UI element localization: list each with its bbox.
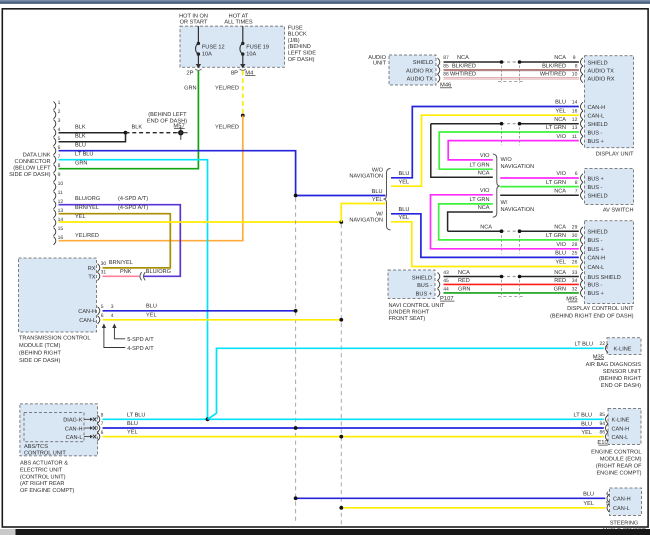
junction TCM CAN-H [294,309,298,313]
svg-text:BUS +: BUS + [416,291,432,297]
ABS/TCS control unit inner box [24,413,84,442]
svg-text:(BEHIND RIGHT: (BEHIND RIGHT [19,349,62,356]
svg-text:29: 29 [572,224,578,230]
svg-text:FUSE 19: FUSE 19 [246,45,269,51]
svg-text:9: 9 [573,55,576,61]
svg-text:TX: TX [88,275,95,281]
engine control module (ECM) box [608,409,641,445]
svg-text:VIO: VIO [556,134,566,140]
svg-text:32: 32 [572,286,578,292]
svg-text:14: 14 [572,100,578,106]
svg-text:BUS -: BUS - [588,185,603,191]
wire NCA audio SHIELD to display unit SHIELD 9 [444,61,502,63]
svg-text:CAN-L: CAN-L [66,435,83,441]
svg-text:WHT/RED: WHT/RED [540,71,566,78]
svg-text:DISPLAY UNIT: DISPLAY UNIT [596,152,634,158]
svg-text:BLU: BLU [399,207,410,213]
svg-text:8: 8 [101,413,104,419]
window title bar (top chrome strip) [0,0,650,4]
svg-text:LT GRN: LT GRN [546,180,566,186]
svg-text:BUS +: BUS + [588,291,604,297]
svg-text:BLU: BLU [399,171,410,177]
display unit box [585,56,634,148]
junction on page-split line BLU [294,194,298,198]
display control unit box [585,221,634,304]
svg-text:BLU: BLU [555,251,566,257]
svg-text:VIO: VIO [480,153,490,159]
svg-text:ALL TIMES: ALL TIMES [224,20,253,26]
svg-text:BUS -: BUS - [588,283,603,289]
svg-text:(BEHIND RIGHT END OF DASH): (BEHIND RIGHT END OF DASH) [550,312,634,319]
svg-text:GRN: GRN [458,286,470,292]
svg-text:ABS ACTUATOR &: ABS ACTUATOR & [20,461,68,467]
svg-text:AUDIO TX: AUDIO TX [407,77,434,83]
svg-text:CAN-H: CAN-H [78,309,96,315]
svg-text:BRN/YEL: BRN/YEL [109,259,133,266]
svg-text:ELECTRIC UNIT: ELECTRIC UNIT [20,467,63,473]
junction on CAN-L [339,435,343,439]
svg-text:BRN/YEL: BRN/YEL [75,204,99,211]
svg-text:OF DASH): OF DASH) [288,56,315,63]
wire GRN navi BUS+ to display control unit BUS+ 32 [444,292,579,294]
svg-text:7: 7 [575,189,578,195]
svg-text:VIO: VIO [556,171,566,177]
svg-text:NCA: NCA [478,170,490,176]
junction DLC pin7 LT BLU on DIAG-K wire [206,417,210,421]
wire VIO display unit BUS+ 11 to W/O brace [448,141,579,160]
wire LT BLU ABS DIAG-K to ECM K-LINE [103,418,604,420]
svg-text:22: 22 [600,341,606,347]
svg-text:TRANSMISSION CONTROL: TRANSMISSION CONTROL [19,336,90,342]
svg-text:8: 8 [575,180,578,186]
junction on CAN-H [294,426,298,430]
splice on BLK [124,131,128,135]
svg-text:SHIELD: SHIELD [413,60,433,66]
svg-text:9: 9 [58,172,61,178]
wire YEL TCM CAN-L to page split junction [103,319,342,321]
svg-text:86: 86 [443,72,449,78]
svg-text:CAN-H: CAN-H [588,105,606,111]
steering angle sensor box [610,488,642,516]
svg-text:STEERING: STEERING [610,521,639,527]
svg-text:87: 87 [443,55,449,61]
svg-text:10: 10 [572,72,578,78]
svg-text:NCA: NCA [478,205,490,211]
wire BRN/YEL TCM RX to DLC pin 13 [103,267,171,269]
transmission control module (TCM) box [19,258,97,332]
wire VIO W/ NAV brace to display control unit BUS+ 28 [431,195,579,249]
svg-text:VIO: VIO [480,188,490,194]
svg-text:WHT/RED: WHT/RED [450,71,476,78]
svg-text:MODULE (ECM): MODULE (ECM) [600,456,642,463]
ECM pin CAN-L 86 [606,432,609,441]
bottom chrome bar [0,529,650,535]
wire YEL ABS CAN-L to ECM CAN-L [103,436,604,438]
svg-text:6: 6 [101,313,104,319]
wire RED navi BUS- to display control unit BUS- 34 [444,283,579,285]
svg-text:NCA: NCA [554,55,566,61]
svg-text:13: 13 [572,125,578,131]
svg-text:5-SPD A/T: 5-SPD A/T [127,336,154,343]
svg-text:(BELOW LEFT: (BELOW LEFT [13,164,51,171]
svg-text:MODULE (TCM): MODULE (TCM) [19,342,60,349]
svg-text:CAN-H: CAN-H [588,256,606,262]
svg-text:BUS -: BUS - [588,238,603,244]
wire PNK TCM TX to inline connector [103,275,140,277]
svg-text:(4-SPD A/T): (4-SPD A/T) [118,204,148,211]
svg-text:LT BLU: LT BLU [575,341,593,347]
svg-text:CAN-L: CAN-L [588,114,605,120]
svg-text:YEL/RED: YEL/RED [215,124,239,131]
brace merging W/O and W/ BUS wires [493,154,500,217]
svg-text:CAN-H: CAN-H [613,497,631,503]
shield drain dashed line [498,81,523,83]
junction TCM CAN-L [339,318,343,322]
svg-text:END OF DASH): END OF DASH) [601,382,641,389]
inline connector on PNK/BLU-ORG [140,272,142,280]
svg-text:DIAG-K: DIAG-K [63,418,83,424]
svg-text:5: 5 [101,304,104,310]
wire BRN/YEL DLC pin 13 to TCM RX [59,214,171,268]
svg-text:SHIELD: SHIELD [588,230,608,236]
wire YEL W/ NAV to display control unit CAN-L 26 [391,222,579,267]
svg-text:YEL/RED: YEL/RED [75,232,99,239]
splice on YEL/RED [241,114,245,118]
svg-text:YEL: YEL [399,215,410,221]
svg-text:LT GRN: LT GRN [470,162,490,168]
svg-text:16: 16 [58,235,64,241]
svg-text:DATA LINK: DATA LINK [23,152,51,158]
svg-text:YEL: YEL [555,260,566,266]
callout arrow 4-SPD A/T [102,323,106,328]
svg-text:(BEHIND LEFT: (BEHIND LEFT [148,111,187,118]
wire LT GRN W/ NAV brace to display control unit BUS- 30 [439,204,579,240]
wire LT GRN merged to AV switch BUS- 8 [500,186,579,188]
svg-text:2: 2 [58,109,61,115]
svg-text:26: 26 [572,260,578,266]
AV switch box [585,169,634,205]
svg-text:NAVI CONTROL UNIT: NAVI CONTROL UNIT [389,303,446,309]
svg-text:BLK: BLK [132,125,143,131]
svg-text:85: 85 [600,412,606,418]
wire BLU/ORG DLC pin 12 to inline connector toward TCM TX [59,205,181,277]
wire YEL steering angle sensor CAN-L [341,507,605,509]
svg-text:FRONT SEAT): FRONT SEAT) [389,315,426,322]
svg-text:LEFT SIDE: LEFT SIDE [288,51,316,57]
svg-text:HOT AT: HOT AT [229,13,249,19]
svg-text:RED: RED [458,278,470,284]
svg-text:SHIELD: SHIELD [588,60,608,66]
wire BLK DLC pin 5 to splice [59,135,126,142]
svg-text:FUSE: FUSE [288,25,303,31]
svg-text:BLK: BLK [75,125,86,131]
svg-text:SIDE OF DASH): SIDE OF DASH) [9,171,50,178]
svg-text:8: 8 [575,63,578,69]
svg-text:(BEHIND RIGHT: (BEHIND RIGHT [599,375,642,382]
wire BLU steering angle sensor CAN-H [296,497,606,499]
svg-text:BLOCK: BLOCK [288,32,307,38]
svg-text:YEL: YEL [146,313,157,319]
svg-text:OF ENGINE COMPT): OF ENGINE COMPT) [20,487,75,494]
svg-text:YEL: YEL [75,214,86,220]
wire BLU ABS CAN-H to ECM CAN-H [103,427,604,429]
svg-text:NAVIGATION: NAVIGATION [501,207,535,213]
svg-text:BLU: BLU [583,492,594,498]
svg-text:BLU: BLU [127,421,138,427]
svg-text:25: 25 [572,251,578,257]
svg-text:(BEHIND: (BEHIND [288,43,311,50]
wire BLU DLC pin 6 to W/O-W/ split brace [59,151,386,196]
svg-text:CAN-L: CAN-L [613,506,630,512]
svg-text:SHIELD: SHIELD [588,122,608,128]
svg-text:BUS +: BUS + [588,176,604,182]
svg-text:YEL: YEL [372,197,383,203]
wire LT BLU DLC pin 7 down to ABS DIAG-K wire [59,160,208,420]
svg-text:CAN-L: CAN-L [612,435,629,441]
ABS/TCS control unit outer box [20,404,98,456]
svg-text:W/: W/ [376,210,383,217]
data link connector pins 1-16 [54,102,56,110]
svg-text:AUDIO RX: AUDIO RX [588,77,615,83]
svg-text:86: 86 [600,430,606,436]
svg-text:CAN-L: CAN-L [79,318,96,324]
svg-text:8P: 8P [231,69,238,76]
svg-text:K-LINE: K-LINE [612,418,630,424]
svg-text:11: 11 [58,190,63,196]
svg-text:BLK/RED: BLK/RED [452,62,476,69]
svg-text:AUDIO RX: AUDIO RX [406,68,433,74]
svg-text:LT GRN: LT GRN [546,125,566,131]
ECM pin K-LINE 85 [606,415,609,424]
svg-text:CAN-H: CAN-H [612,426,630,432]
svg-text:AV SWITCH: AV SWITCH [603,208,634,214]
wire WHT/RED audio TX to display unit AUDIO RX 10 [444,77,579,79]
svg-text:SHIELD: SHIELD [588,194,608,200]
svg-text:4: 4 [111,313,114,319]
svg-text:W/O: W/O [372,167,384,174]
svg-text:NCA: NCA [480,224,492,230]
svg-text:NCA: NCA [554,224,566,230]
svg-text:30: 30 [101,261,107,267]
svg-text:44: 44 [443,286,449,292]
wire BLU W/O NAV to display unit CAN-H 14 [391,107,579,178]
svg-text:(RIGHT REAR OF: (RIGHT REAR OF [596,463,642,470]
svg-text:3: 3 [111,304,114,310]
svg-text:(4-SPD A/T): (4-SPD A/T) [118,195,148,202]
svg-text:LT BLU: LT BLU [574,412,592,418]
svg-text:10A: 10A [202,51,212,57]
svg-text:NAVIGATION: NAVIGATION [349,174,383,180]
svg-text:BLK: BLK [75,134,86,140]
svg-text:YEL: YEL [583,501,594,507]
svg-text:BLU: BLU [75,143,86,149]
wire BLU TCM CAN-H to page split junction [103,310,296,312]
svg-text:ENGINE CONTROL: ENGINE CONTROL [591,449,641,455]
shield drain dashed line lower [498,296,523,298]
svg-text:4-SPD A/T: 4-SPD A/T [127,345,154,352]
svg-text:34: 34 [572,278,578,284]
svg-text:10: 10 [58,181,64,187]
wire BLK dashed splice to ground M57 [126,132,177,134]
svg-text:RX: RX [88,266,96,272]
navi control unit box [388,270,435,298]
svg-text:8: 8 [58,163,61,169]
svg-text:CONTROL UNIT: CONTROL UNIT [24,451,66,457]
svg-text:NAVIGATION: NAVIGATION [501,164,535,170]
svg-text:YEL: YEL [581,430,592,436]
svg-text:YEL: YEL [399,180,410,186]
svg-text:NCA: NCA [554,189,566,195]
fuse F19 (FUSE 19 10A) [242,26,244,43]
air bag diagnosis sensor unit box [607,338,641,355]
svg-text:85: 85 [443,63,449,69]
svg-text:LT GRN: LT GRN [470,197,490,203]
svg-text:94: 94 [600,421,606,427]
ECM pin CAN-H 94 [606,424,609,433]
svg-text:YEL: YEL [555,108,566,114]
wire NCA W/ NAV brace to display control unit SHIELD 29 [448,212,493,231]
svg-text:W/: W/ [501,199,508,206]
svg-text:30: 30 [572,233,578,239]
svg-text:LT GRN: LT GRN [546,233,566,239]
svg-text:RED: RED [554,278,566,284]
svg-text:43: 43 [443,270,449,276]
svg-text:BLU/ORG: BLU/ORG [75,195,100,202]
svg-text:W/O: W/O [501,156,513,163]
svg-text:SHIELD: SHIELD [412,276,432,282]
audio unit box [389,55,436,85]
svg-text:BLU: BLU [372,189,383,195]
svg-text:BUS +: BUS + [588,139,604,145]
svg-text:HOT IN ON: HOT IN ON [179,13,208,19]
svg-text:FUSE 12: FUSE 12 [202,45,225,51]
svg-text:BUS +: BUS + [588,247,604,253]
svg-text:DISPLAY CONTROL UNIT: DISPLAY CONTROL UNIT [567,306,634,312]
svg-text:PNK: PNK [120,269,132,275]
svg-text:28: 28 [572,242,578,248]
wire LT BLU branch to air bag diagnosis sensor K-LINE [208,348,604,419]
svg-text:BLU: BLU [581,421,592,427]
svg-text:6: 6 [101,430,104,436]
svg-text:(AT RIGHT REAR: (AT RIGHT REAR [20,480,64,487]
svg-text:BUS -: BUS - [417,283,432,289]
svg-text:NAVIGATION: NAVIGATION [349,218,383,224]
svg-text:GRN: GRN [75,161,87,167]
svg-text:16: 16 [572,108,578,114]
wire NCA display unit SHIELD 12 to W/O brace [431,123,502,125]
svg-text:AUDIO TX: AUDIO TX [588,68,615,74]
svg-text:2P: 2P [186,69,193,76]
svg-text:7: 7 [101,421,104,427]
svg-text:31: 31 [101,270,107,276]
svg-text:ABS/TCS: ABS/TCS [24,443,48,450]
wire YEL W/O NAV to display unit CAN-L 16 [391,115,579,186]
svg-text:6: 6 [575,171,578,177]
wire VIO merged to AV switch BUS+ 6 [500,177,579,179]
wire BLU W/ NAV to display control unit CAN-H 25 [391,214,579,258]
callout arrow 5-SPD A/T [112,323,116,328]
svg-text:BUS -: BUS - [588,130,603,136]
wire NCA navi SHIELD to display control unit BUS SHIELD 33 [444,276,502,278]
wire LT GRN display unit BUS- 13 to W/O brace [439,132,579,169]
fuse F12 (FUSE 12 10A) [197,26,199,43]
svg-text:ENGINE COMPT): ENGINE COMPT) [596,470,641,477]
svg-text:CAN-L: CAN-L [588,265,605,271]
svg-text:33: 33 [572,270,578,276]
svg-text:NCA: NCA [554,117,566,123]
svg-text:BLU: BLU [146,304,157,310]
fuse block box (J/B) [180,26,285,67]
wire BLK/RED audio RX to display unit AUDIO TX 8 [444,69,579,71]
svg-text:NCA: NCA [554,270,566,276]
wire BLK DLC pin 4 to splice [59,132,126,134]
svg-text:BLU: BLU [555,100,566,106]
svg-text:AIR BAG DIAGNOSIS: AIR BAG DIAGNOSIS [586,362,642,368]
svg-text:NCA: NCA [458,270,470,276]
wire YEL DLC pin 14 to split brace [59,221,342,223]
svg-text:45: 45 [443,278,449,284]
svg-text:OR START: OR START [180,20,208,26]
svg-text:(CONTROL UNIT): (CONTROL UNIT) [20,473,66,480]
svg-text:YEL/RED: YEL/RED [215,85,239,92]
svg-text:BUS SHIELD: BUS SHIELD [588,275,621,281]
svg-text:GRN: GRN [554,286,566,292]
svg-text:15: 15 [58,226,64,232]
svg-text:BLK/RED: BLK/RED [542,62,566,69]
wire GRN from fuse 12 2P to DLC pin 8 [59,71,199,169]
wire YEL/RED from splice to DLC pin 16 [59,116,243,241]
wire NCA merged to AV switch SHIELD 7 [500,194,579,196]
page split dashed line left (CAN-H continuation) [295,197,297,524]
svg-text:K-LINE: K-LINE [614,347,632,353]
svg-text:LT BLU: LT BLU [127,412,145,418]
svg-text:11: 11 [572,134,577,140]
junction on page-split line YEL [339,220,343,224]
svg-text:(UNDER RIGHT: (UNDER RIGHT [389,309,430,316]
svg-text:GRN: GRN [184,86,196,92]
svg-text:3: 3 [58,118,61,124]
svg-text:1: 1 [58,100,61,106]
wire YEL riser to brace [341,204,385,223]
svg-text:UNIT: UNIT [373,60,387,66]
page split dashed line right (CAN-L continuation) [340,224,342,524]
svg-text:SIDE OF DASH): SIDE OF DASH) [19,357,60,364]
brace splitting DLC BLU/YEL for W/O and W/ navigation [384,168,391,230]
svg-text:YEL: YEL [127,430,138,436]
svg-text:LT BLU: LT BLU [75,152,93,158]
svg-text:VIO: VIO [556,242,566,248]
svg-text:BLU/ORG: BLU/ORG [146,268,171,275]
svg-text:CONNECTOR: CONNECTOR [15,159,51,165]
svg-text:12: 12 [572,117,578,123]
svg-text:SENSOR UNIT: SENSOR UNIT [603,369,642,375]
svg-text:10A: 10A [246,51,256,57]
svg-text:(J/B): (J/B) [288,37,300,44]
wire YEL/RED dashed segment from fuse 19 8P [242,71,244,116]
svg-text:NCA: NCA [457,55,469,61]
svg-text:CAN-H: CAN-H [65,426,83,432]
